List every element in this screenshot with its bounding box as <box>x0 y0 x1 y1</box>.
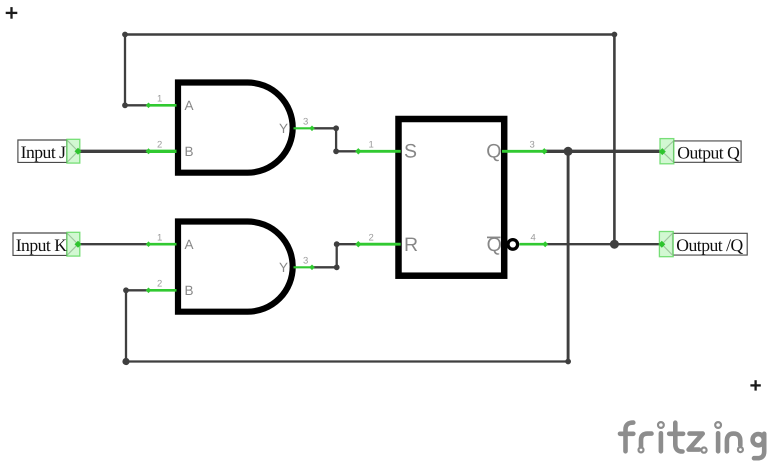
svg-text:2: 2 <box>157 279 162 290</box>
svg-text:A: A <box>185 98 194 113</box>
AND gate U1 (top) <box>178 83 293 173</box>
svg-text:3: 3 <box>303 256 308 267</box>
node bend Y1 upper <box>333 125 339 131</box>
node bend top-right corner <box>612 32 618 38</box>
node bend Y1 lower <box>333 148 339 154</box>
svg-text:Y: Y <box>279 121 288 136</box>
node junction /Q net <box>610 240 619 249</box>
wire gate2 Y to bend <box>312 266 337 268</box>
node junction Q net <box>564 147 573 156</box>
node bend top-left corner <box>122 32 128 38</box>
pin 4 latch /Q green stub <box>520 243 546 246</box>
svg-text:3: 3 <box>303 117 308 128</box>
wire gate1 Y to bend <box>312 127 336 129</box>
svg-text:2: 2 <box>157 140 162 151</box>
net label Input J <box>18 139 82 163</box>
wire junction to Output Q <box>568 150 659 153</box>
svg-text:3: 3 <box>530 140 535 151</box>
svg-text:4: 4 <box>531 233 536 244</box>
svg-text:B: B <box>185 144 194 159</box>
node bend Y2 lower <box>334 264 340 270</box>
pin 3 gate2 Y green stub <box>294 266 313 268</box>
svg-text:Q: Q <box>486 140 501 162</box>
node bend Y2 upper <box>334 241 340 247</box>
wire bend down to S row <box>335 128 337 151</box>
wire bend up to R row <box>336 244 338 267</box>
pin 1 gate2 A green stub <box>149 243 177 246</box>
svg-text:Output /Q: Output /Q <box>676 235 743 255</box>
node bend bottom rail left corner <box>122 358 129 365</box>
wire into gate1 pin A <box>125 104 149 106</box>
net label Input K <box>13 232 82 256</box>
net label Output Q <box>659 139 741 164</box>
svg-text:1: 1 <box>157 94 162 105</box>
pin 3 gate1 Y green stub <box>294 127 313 129</box>
wire into gate2 pin B <box>126 289 149 291</box>
wire latch /Q to Output /Q <box>545 243 659 245</box>
wire top rail right drop to /Q net <box>613 35 616 245</box>
wire Input J to gate1 pin B <box>79 150 149 153</box>
wire bottom rail horizontal <box>126 360 568 362</box>
wire Input K to gate2 pin A <box>79 243 149 245</box>
svg-text:1: 1 <box>157 233 162 244</box>
svg-text:S: S <box>404 140 417 162</box>
svg-text:A: A <box>185 237 194 252</box>
svg-text:Y: Y <box>279 260 288 275</box>
wire to latch R pin <box>337 243 359 245</box>
pin 1 latch S green stub <box>358 150 400 153</box>
node bend gate2 B corner <box>123 287 129 293</box>
svg-text:Input J: Input J <box>21 142 67 162</box>
pin 2 latch R green stub <box>358 243 400 246</box>
pin 2 gate2 B green stub <box>149 289 177 292</box>
AND gate U2 (bottom) <box>178 222 293 312</box>
crosshair plus bottom-right <box>750 380 760 390</box>
fritzing logo <box>620 422 764 458</box>
svg-text:2: 2 <box>369 233 374 244</box>
SR latch U3 <box>399 119 518 276</box>
wire bottom rail left rise <box>125 290 127 361</box>
svg-text:1: 1 <box>369 140 374 151</box>
svg-text:Input K: Input K <box>16 235 68 255</box>
node bend bottom rail right corner <box>565 359 571 365</box>
wire to latch S pin <box>336 150 358 152</box>
pin 2 gate1 B green stub <box>149 150 177 153</box>
pin 1 gate1 A green stub <box>149 104 177 107</box>
node bend left drop corner <box>122 102 128 108</box>
wire top rail horizontal (/Q feedback) <box>125 33 614 36</box>
svg-text:R: R <box>404 234 418 256</box>
inversion bubble on /Q <box>508 240 518 250</box>
net label Output /Q <box>658 232 747 257</box>
crosshair plus top-left <box>6 7 18 19</box>
pin 3 latch Q green stub <box>502 150 544 153</box>
svg-text:B: B <box>185 283 194 298</box>
svg-text:Output Q: Output Q <box>677 143 740 163</box>
wire latch Q to junction <box>544 150 568 153</box>
wire Q feedback vertical down <box>567 151 570 361</box>
wire top rail left drop to gate1 pin A <box>124 35 126 106</box>
